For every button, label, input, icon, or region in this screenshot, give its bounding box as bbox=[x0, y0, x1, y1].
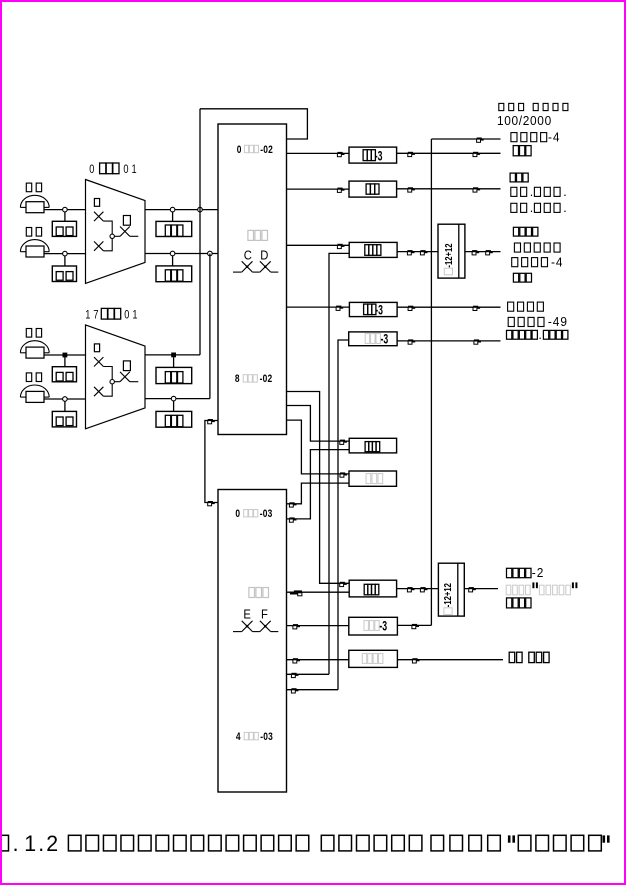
trunk box row5 (gray) bbox=[349, 332, 397, 346]
svg-text:01: 01 bbox=[124, 308, 140, 322]
arrow into GI-03 bbox=[289, 502, 296, 507]
svg-text:-3: -3 bbox=[375, 148, 383, 164]
wire row2 to label bbox=[397, 188, 501, 190]
internal wire to output crosspoint bbox=[114, 235, 120, 237]
arrow bbox=[486, 250, 493, 255]
arrow into GI-02 bbox=[208, 419, 215, 424]
arrow bbox=[293, 658, 300, 663]
wire phone to concentrator input bbox=[44, 253, 86, 255]
wire module2A to PSK lower bbox=[397, 588, 439, 590]
arrow into GI-03 bbox=[208, 501, 215, 506]
output crosspoint bbox=[120, 372, 130, 382]
svg-text:-4: -4 bbox=[551, 255, 563, 269]
svg-text:.: . bbox=[538, 328, 541, 342]
wire PI2 output A (to riser x200) bbox=[145, 354, 200, 356]
crosspoint upper bbox=[94, 212, 103, 221]
selector wiper symbol bbox=[233, 631, 242, 633]
wire PI1 output A to selector input bbox=[145, 209, 218, 211]
intermediate box module2C (gray) bbox=[349, 650, 398, 667]
junction node on riser bbox=[198, 207, 203, 212]
arrow bbox=[472, 250, 479, 255]
wire GI-02 to box row4 bbox=[287, 306, 350, 308]
svg-text:17: 17 bbox=[85, 308, 101, 322]
svg-text:.: . bbox=[530, 185, 533, 199]
svg-text:-4: -4 bbox=[548, 130, 560, 144]
arrow bbox=[408, 306, 415, 311]
svg-text:1.2: 1.2 bbox=[24, 831, 60, 856]
cord circuit box ShK3 bbox=[156, 367, 192, 383]
line circuit box AK3 bbox=[52, 367, 76, 382]
register box PSK-12+12 upper bbox=[438, 224, 465, 278]
wire PSK lower to label bbox=[464, 588, 498, 590]
arrow bbox=[473, 187, 480, 192]
junction node bbox=[171, 396, 176, 401]
internal wiring bbox=[103, 221, 112, 251]
arrow bbox=[340, 472, 347, 477]
svg-text:C: C bbox=[244, 248, 253, 263]
intermediate box module1 bbox=[349, 438, 396, 453]
junction node bbox=[170, 251, 175, 256]
crosspoint lower bbox=[94, 387, 103, 396]
bus top wire to label bbox=[431, 138, 500, 140]
wire module2 to GI-03 stub bbox=[287, 483, 350, 504]
svg-text:-02: -02 bbox=[260, 144, 273, 157]
wire selector1 to selector2 left link bbox=[205, 421, 218, 503]
svg-text:0: 0 bbox=[89, 163, 94, 177]
wire GI-02 out3 to module2 bbox=[287, 420, 350, 474]
contact symbol tofu bbox=[94, 344, 99, 352]
intermediate box module2 (gray) bbox=[349, 471, 397, 486]
crosspoint upper bbox=[94, 357, 103, 366]
label row3 line1 bbox=[513, 227, 518, 236]
wire junction to cord box bbox=[173, 401, 175, 412]
arrow bbox=[336, 306, 343, 311]
hat feedback wire bbox=[200, 109, 307, 139]
intermediate box module2B (gray) bbox=[349, 617, 398, 635]
wire PI2 output B (to riser x210) bbox=[145, 398, 210, 400]
label row3 line2 bbox=[514, 243, 520, 252]
arrow bbox=[412, 658, 419, 663]
internal wiring bbox=[103, 367, 112, 397]
arrow bbox=[340, 582, 347, 587]
svg-text:-3: -3 bbox=[375, 302, 383, 318]
wire phone to concentrator input bbox=[44, 398, 86, 400]
cord circuit box ShK4 bbox=[156, 411, 192, 427]
subscriber phone TA4 bbox=[26, 373, 31, 382]
wire junction to line box bbox=[64, 212, 66, 221]
label row2 heading bbox=[510, 173, 515, 182]
wire row5 to label bbox=[397, 340, 500, 342]
svg-text:D: D bbox=[260, 248, 268, 263]
crosspoint lower bbox=[94, 241, 103, 250]
arrow bbox=[408, 187, 415, 192]
cord circuit box ShK1 bbox=[156, 221, 192, 236]
wire GI-02 out2 to module1 bbox=[287, 406, 350, 442]
contact symbol tofu bbox=[123, 216, 130, 226]
label row4 line2 bbox=[508, 317, 514, 326]
wire junction to line box bbox=[64, 401, 66, 411]
label lower line3 bbox=[507, 598, 512, 608]
svg-text:-03: -03 bbox=[260, 508, 273, 521]
trunk box row4 bbox=[349, 302, 397, 316]
selector wiper symbol bbox=[233, 271, 242, 273]
label row2 line3 bbox=[511, 203, 517, 212]
figure caption bbox=[0, 835, 9, 851]
arrow bidirectional bbox=[294, 590, 302, 592]
svg-text:-02: -02 bbox=[260, 373, 273, 386]
svg-text:0: 0 bbox=[237, 144, 242, 157]
wire GI-03 to module2A bbox=[287, 591, 350, 593]
label row2 line2 bbox=[511, 187, 517, 196]
internal node bbox=[110, 380, 114, 384]
wire module1 to GI-03 stub bbox=[287, 450, 350, 519]
wire row3 lower tap to riser x329 bbox=[329, 253, 349, 674]
svg-text:.: . bbox=[13, 831, 19, 856]
arrow bbox=[340, 440, 347, 445]
svg-text:-12+12: -12+12 bbox=[443, 244, 454, 268]
arrow bbox=[420, 587, 427, 592]
label UPATS-4 bbox=[511, 133, 517, 142]
cord box ShK row3 bbox=[349, 242, 397, 257]
group selector stage box 0..8 GI-02 bbox=[218, 124, 287, 435]
svg-text:.: . bbox=[530, 201, 533, 215]
wire junction to line box bbox=[64, 256, 66, 266]
main trunk bus vertical bbox=[430, 139, 432, 625]
svg-text:-3: -3 bbox=[381, 331, 389, 347]
contact symbol tofu bbox=[94, 199, 99, 207]
junction node bbox=[170, 207, 175, 212]
wire row3 to PSK-12+12 bbox=[397, 251, 438, 253]
wire GI-03 to module2C bbox=[287, 659, 349, 661]
wire riser x329 into GI-03 bbox=[287, 673, 330, 675]
label ATS DSh heading bbox=[499, 103, 504, 110]
wire row1 to label bbox=[397, 152, 501, 154]
arrow bbox=[477, 138, 484, 143]
arrow bbox=[337, 152, 344, 157]
svg-text:.: . bbox=[563, 201, 566, 215]
wire GI-02 to box row2 bbox=[287, 188, 350, 190]
arrow into GI-03 bbox=[291, 688, 298, 693]
subscriber phone TA3 bbox=[26, 329, 31, 338]
internal node bbox=[110, 234, 114, 238]
arrow bbox=[408, 339, 415, 344]
contact symbol tofu bbox=[123, 361, 130, 371]
line circuit box AK1 bbox=[52, 221, 76, 236]
trunk box row2 bbox=[349, 181, 397, 197]
intermediate box module2A bbox=[349, 580, 396, 597]
wire junction to cord box bbox=[173, 357, 175, 367]
arrow bbox=[337, 188, 344, 193]
arrow bbox=[412, 624, 419, 629]
svg-text:-03: -03 bbox=[260, 731, 273, 744]
label row4 line1 bbox=[508, 302, 514, 311]
group selector stage box 0..4 GI-03 bbox=[218, 490, 287, 793]
arrow bbox=[420, 250, 427, 255]
line circuit box AK4 bbox=[52, 411, 76, 427]
svg-text:100/2000: 100/2000 bbox=[497, 114, 552, 128]
junction node bbox=[63, 397, 68, 402]
trunk box RSL-3 row1 bbox=[349, 147, 397, 163]
arrow bbox=[473, 152, 480, 157]
concentrator PI 1 body bbox=[86, 180, 146, 284]
junction node bbox=[63, 353, 68, 358]
wire junction to line box bbox=[64, 357, 66, 366]
wire phone to concentrator input bbox=[44, 209, 86, 211]
wire PSK to label row3 bbox=[465, 251, 501, 253]
junction node on riser bbox=[208, 251, 213, 256]
arrow into GI-03 bbox=[291, 673, 298, 678]
wire GI-02 out1 to lower module A bbox=[287, 392, 350, 584]
arrow bbox=[407, 587, 414, 592]
line circuit box AK2 bbox=[52, 266, 76, 282]
svg-text:.: . bbox=[563, 185, 566, 199]
arrow bbox=[407, 250, 414, 255]
svg-text:-12+12: -12+12 bbox=[442, 583, 453, 607]
svg-text:0: 0 bbox=[235, 508, 240, 521]
arrow bbox=[474, 339, 481, 344]
label row5 bbox=[507, 330, 512, 339]
label row1 (MTS) bbox=[513, 146, 518, 156]
wire riser x338 into GI-03 bbox=[287, 689, 339, 691]
label bottom (UZPS) bbox=[509, 652, 515, 662]
selector symbol tofu bbox=[249, 588, 255, 598]
wire row4 to label bbox=[397, 306, 500, 308]
wire GI-02 to RSL box row1 bbox=[287, 152, 350, 154]
wire GI-02 to ShK box row3 bbox=[287, 244, 350, 246]
junction node bbox=[63, 251, 68, 256]
subscriber phone TA2 bbox=[26, 228, 31, 237]
svg-text:-49: -49 bbox=[548, 315, 568, 329]
svg-text:-2: -2 bbox=[532, 566, 544, 580]
arrow into GI-03 bbox=[289, 517, 296, 522]
label lower quoted (gray) bbox=[506, 585, 511, 595]
riser wire x=200 (hat to PI2 output A) bbox=[199, 109, 201, 355]
wire bus end into module2B bbox=[397, 624, 431, 626]
arrow bbox=[337, 244, 344, 249]
arrow bbox=[293, 624, 300, 629]
arrow bbox=[473, 306, 480, 311]
concentrator PI 2 body bbox=[86, 325, 146, 429]
svg-text:01: 01 bbox=[123, 163, 139, 177]
output crosspoint bbox=[120, 227, 130, 237]
internal wire to output crosspoint bbox=[114, 381, 120, 383]
svg-text:F: F bbox=[261, 607, 268, 622]
svg-text:4: 4 bbox=[236, 731, 241, 744]
svg-text:E: E bbox=[243, 607, 251, 622]
wire junction to cord box bbox=[172, 212, 174, 222]
wire junction to cord box bbox=[172, 256, 174, 266]
wire module2C to label bbox=[397, 659, 503, 661]
svg-text:-3: -3 bbox=[379, 618, 387, 634]
register box PSK-12+12 lower bbox=[438, 563, 464, 616]
svg-text:8: 8 bbox=[235, 373, 240, 386]
wire phone to concentrator input bbox=[44, 354, 86, 356]
wire PI1 output B to selector input bbox=[145, 253, 218, 255]
subscriber phone TA1 bbox=[26, 183, 31, 192]
arrow bbox=[408, 152, 415, 157]
junction node bbox=[63, 207, 68, 212]
selector symbol tofu bbox=[248, 230, 254, 240]
cord circuit box ShK2 bbox=[156, 266, 192, 282]
label lower PSK-2 bbox=[507, 568, 512, 577]
wire GI-03 to module2B bbox=[287, 625, 349, 627]
junction node bbox=[171, 353, 176, 358]
label row3 line3 bbox=[512, 258, 518, 267]
label row3 line4 bbox=[513, 273, 518, 282]
wire row5 from riser x338 bbox=[338, 340, 349, 690]
arrow bbox=[469, 587, 476, 592]
riser wire x=210 (selector input B to PI2 output B) bbox=[209, 254, 211, 399]
